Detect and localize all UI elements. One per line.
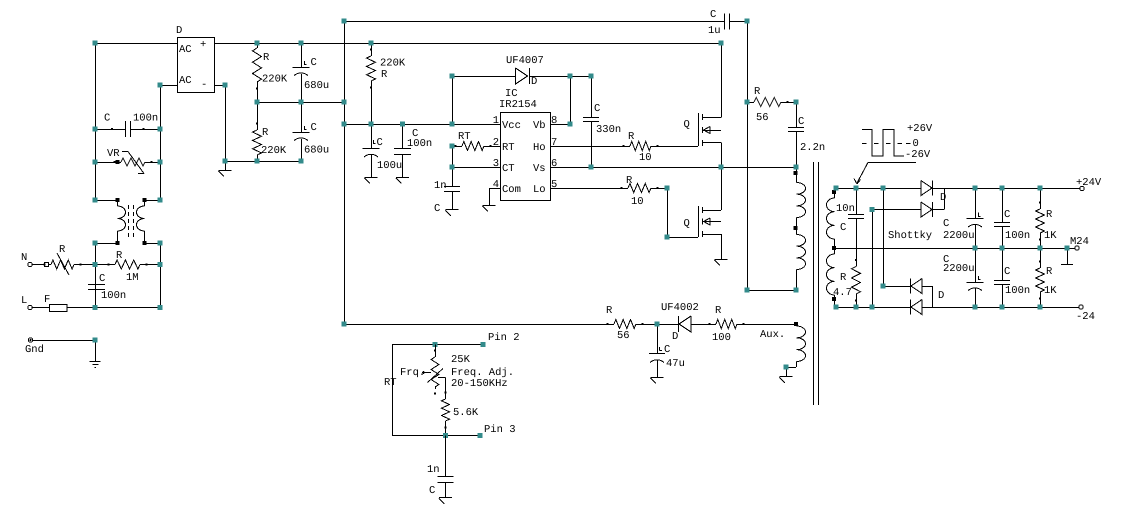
svg-text:Vb: Vb xyxy=(533,120,546,132)
svg-text:R: R xyxy=(754,86,761,98)
svg-text:D: D xyxy=(938,290,944,302)
svg-text:-26V: -26V xyxy=(905,149,931,161)
svg-text:Shottky: Shottky xyxy=(888,230,932,242)
svg-text:D: D xyxy=(176,25,182,37)
svg-text:2.2n: 2.2n xyxy=(800,142,825,154)
svg-text:100u: 100u xyxy=(377,160,402,172)
svg-text:1n: 1n xyxy=(434,180,447,192)
svg-text:R: R xyxy=(606,305,613,317)
svg-text:10n: 10n xyxy=(836,203,855,215)
svg-text:N: N xyxy=(21,252,27,264)
svg-text:R: R xyxy=(628,131,635,143)
svg-text:680u: 680u xyxy=(304,80,329,92)
svg-text:C: C xyxy=(311,57,317,69)
svg-text:47u: 47u xyxy=(666,358,685,370)
svg-text:100n: 100n xyxy=(133,113,158,125)
svg-text:3: 3 xyxy=(493,158,499,170)
svg-text:330n: 330n xyxy=(596,124,621,136)
svg-text:56: 56 xyxy=(756,112,769,124)
svg-text:R: R xyxy=(1046,209,1053,221)
svg-text:6: 6 xyxy=(551,158,557,170)
svg-text:C: C xyxy=(311,122,317,134)
svg-text:220K: 220K xyxy=(380,58,406,70)
svg-text:Lo: Lo xyxy=(533,184,546,196)
svg-text:C: C xyxy=(840,222,846,234)
svg-text:RT: RT xyxy=(502,142,515,154)
svg-text:+: + xyxy=(200,39,206,51)
svg-text:Pin 3: Pin 3 xyxy=(484,424,516,436)
svg-text:5.6K: 5.6K xyxy=(453,407,479,419)
svg-text:Ho: Ho xyxy=(533,142,546,154)
svg-text:RT: RT xyxy=(384,377,397,389)
svg-text:C: C xyxy=(594,103,600,115)
svg-text:R: R xyxy=(59,244,66,256)
svg-text:AC: AC xyxy=(179,75,192,87)
svg-text:-: - xyxy=(201,79,207,91)
svg-text:D: D xyxy=(672,331,678,343)
svg-text:C: C xyxy=(943,218,949,230)
svg-text:R: R xyxy=(381,69,388,81)
svg-text:C: C xyxy=(99,273,105,285)
svg-text:1: 1 xyxy=(493,115,499,127)
svg-text:2200u: 2200u xyxy=(943,263,975,275)
svg-text:7: 7 xyxy=(551,137,557,149)
svg-text:56: 56 xyxy=(617,330,630,342)
svg-text:Frq.: Frq. xyxy=(400,367,425,379)
svg-text:R: R xyxy=(715,305,722,317)
svg-text:8: 8 xyxy=(551,115,557,127)
svg-text:IR2154: IR2154 xyxy=(499,99,537,111)
svg-text:C: C xyxy=(377,137,383,149)
svg-text:C: C xyxy=(104,113,110,125)
svg-text:C: C xyxy=(710,9,716,21)
svg-text:220K: 220K xyxy=(262,74,288,86)
svg-text:100: 100 xyxy=(712,332,731,344)
svg-text:1K: 1K xyxy=(1044,230,1057,242)
svg-text:L: L xyxy=(21,295,27,307)
svg-text:C: C xyxy=(429,485,435,497)
svg-text:+26V: +26V xyxy=(907,123,933,135)
svg-text:UF4002: UF4002 xyxy=(661,302,699,314)
svg-text:25K: 25K xyxy=(451,354,471,366)
svg-text:R: R xyxy=(1046,266,1053,278)
svg-text:10: 10 xyxy=(639,152,652,164)
svg-text:C: C xyxy=(1004,209,1010,221)
svg-text:Vs: Vs xyxy=(533,163,546,175)
svg-text:Vcc: Vcc xyxy=(502,120,521,132)
svg-text:2: 2 xyxy=(493,137,499,149)
svg-text:Gnd: Gnd xyxy=(25,344,44,356)
svg-text:100n: 100n xyxy=(101,290,126,302)
svg-text:100n: 100n xyxy=(1005,285,1030,297)
svg-text:M24: M24 xyxy=(1070,236,1089,248)
svg-text:R: R xyxy=(263,52,270,64)
svg-text:R: R xyxy=(626,175,633,187)
svg-text:680u: 680u xyxy=(304,145,329,157)
svg-text:1M: 1M xyxy=(126,272,139,284)
svg-text:C: C xyxy=(434,203,440,215)
svg-text:1n: 1n xyxy=(427,464,440,476)
svg-text:C: C xyxy=(798,116,804,128)
svg-text:5: 5 xyxy=(551,179,557,191)
svg-text:R: R xyxy=(840,272,847,284)
svg-text:F: F xyxy=(44,294,50,306)
svg-text:100n: 100n xyxy=(1005,230,1030,242)
svg-text:100n: 100n xyxy=(407,138,432,150)
svg-text:R: R xyxy=(262,127,269,139)
svg-text:Q: Q xyxy=(684,218,690,230)
svg-text:C: C xyxy=(664,344,670,356)
svg-text:AC: AC xyxy=(179,44,192,56)
svg-text:220K: 220K xyxy=(261,145,287,157)
svg-text:CT: CT xyxy=(502,163,515,175)
svg-text:Com: Com xyxy=(502,184,521,196)
svg-text:Aux.: Aux. xyxy=(760,329,785,341)
svg-text:-24: -24 xyxy=(1076,311,1095,323)
svg-text:4.7: 4.7 xyxy=(833,287,852,299)
svg-text:D: D xyxy=(940,192,946,204)
svg-text:RT: RT xyxy=(458,131,471,143)
svg-text:Pin 2: Pin 2 xyxy=(488,332,520,344)
svg-text:4: 4 xyxy=(493,179,499,191)
svg-text:2200u: 2200u xyxy=(943,230,975,242)
svg-text:10: 10 xyxy=(631,196,644,208)
svg-text:D: D xyxy=(531,76,537,88)
svg-text:1K: 1K xyxy=(1044,285,1057,297)
svg-text:VR: VR xyxy=(107,148,120,160)
svg-text:20-150KHz: 20-150KHz xyxy=(451,378,508,390)
svg-text:Q: Q xyxy=(684,119,690,131)
svg-text:1u: 1u xyxy=(708,25,721,37)
svg-text:UF4007: UF4007 xyxy=(506,55,544,67)
svg-text:C: C xyxy=(1004,266,1010,278)
